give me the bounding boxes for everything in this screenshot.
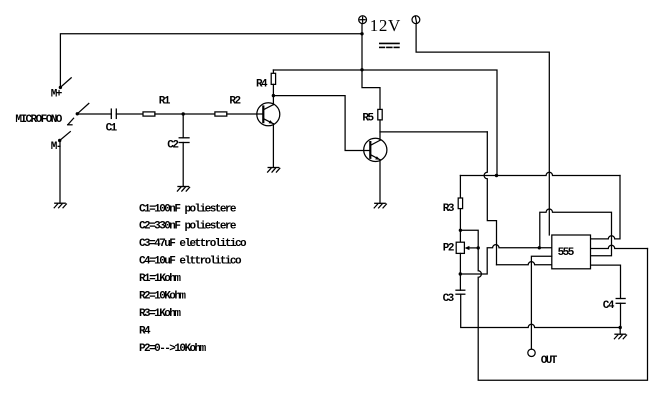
capacitor C2 xyxy=(179,138,189,143)
node junction rail-2 xyxy=(495,174,498,177)
node mic mid contact dot xyxy=(76,112,79,115)
svg-text:MICROFONO: MICROFONO xyxy=(15,114,62,126)
wire R3 bottom to P2 top xyxy=(459,209,461,243)
node junction C4 bottom xyxy=(619,326,622,329)
svg-text:OUT: OUT xyxy=(541,355,558,367)
svg-text:R1=1Kohm: R1=1Kohm xyxy=(139,273,181,285)
microphone M+ contact xyxy=(60,78,71,88)
wire loop pin net over top of 555 with hop over negative wire xyxy=(540,209,612,256)
resistor R5 xyxy=(378,109,382,140)
wire rail-1 from R4 top to 555 area vertical xyxy=(273,70,497,176)
node junction P2 wiper xyxy=(477,246,480,249)
capacitor C3 xyxy=(456,290,465,294)
ground under C2 xyxy=(177,187,189,192)
battery DC symbol xyxy=(380,43,399,47)
wire Q2 collector branch to 555 bottom-left pin (hops rail-2 and crosses) xyxy=(380,131,487,133)
microphone mid contact xyxy=(68,103,89,124)
wire C2 node down xyxy=(182,114,184,138)
ground under M- xyxy=(54,203,66,208)
svg-text:C1=100nF poliestere: C1=100nF poliestere xyxy=(139,203,237,215)
svg-text:C4=10uF elttrolitico: C4=10uF elttrolitico xyxy=(139,256,242,268)
ground under Q1 xyxy=(268,168,280,173)
svg-text:555: 555 xyxy=(558,247,575,259)
transistor Q1 xyxy=(257,103,280,126)
wire bypass R3 bottom to P2 wiper xyxy=(460,230,478,248)
wire P2 bottom to C3 top xyxy=(459,253,461,290)
wire C2 down to ground xyxy=(182,143,184,187)
node M+ contact dot xyxy=(59,86,62,89)
wire node to ground xyxy=(619,328,621,335)
node M- contact dot xyxy=(58,139,61,142)
wire negative terminal to 555 top pin xyxy=(416,24,549,235)
wire vertical with hop over rail-2 xyxy=(484,132,496,265)
node junction R3 bottom xyxy=(459,229,462,232)
resistor R4 xyxy=(271,70,275,105)
svg-text:C3=47uF elettrolitico: C3=47uF elettrolitico xyxy=(139,238,247,250)
wire C3/P2 node to 555 left pin 1 with hop xyxy=(460,245,552,274)
op-amp U1 555 timer box xyxy=(552,235,591,269)
svg-text:P2: P2 xyxy=(443,243,454,255)
wire into 555 pin bottom-left with hop over OUT wire xyxy=(497,262,552,265)
node junction rail-1 xyxy=(360,68,363,71)
wire rail-2 left end down to R3 xyxy=(459,176,461,199)
wire 555 right pin 2 with hop xyxy=(591,245,648,248)
node junction 12V rail top xyxy=(360,32,363,35)
wire 555 right pin 4 to C4 xyxy=(591,265,621,298)
node junction 555 pin net xyxy=(538,246,541,249)
wire Q1 emitter to ground xyxy=(272,124,274,168)
wire C1 to R1 xyxy=(116,113,143,115)
wire R1 to R2 through C2 node xyxy=(155,113,215,115)
resistor R1 xyxy=(143,112,155,116)
ground under Q2 xyxy=(374,203,386,208)
wire C4 bottom to node xyxy=(620,303,622,327)
svg-text:R3=1Kohm: R3=1Kohm xyxy=(139,308,181,320)
wire rail-2 Vcc with hop over negative wire xyxy=(460,172,620,175)
svg-text:C2=330nF poliestere: C2=330nF poliestere xyxy=(139,221,237,233)
wire R2 to Q1 base xyxy=(227,113,263,115)
resistor R3 xyxy=(458,198,462,209)
resistor R2 xyxy=(215,112,227,116)
capacitor C1 xyxy=(111,109,116,118)
wire Q2 emitter to ground xyxy=(379,160,381,204)
node junction C2 top xyxy=(182,112,185,115)
wire 555 right pin 1 up to rail-2 with hop xyxy=(591,176,621,239)
transistor Q2 xyxy=(364,138,387,161)
svg-text:C2: C2 xyxy=(167,140,178,152)
supply terminal +12V xyxy=(359,16,367,24)
svg-text:12V: 12V xyxy=(370,16,401,35)
node junction P2 bottom C3 top xyxy=(459,272,462,275)
svg-text:P2=0-->10Kohm: P2=0-->10Kohm xyxy=(139,343,207,355)
svg-text:R2: R2 xyxy=(229,96,240,108)
wire mic to C1 xyxy=(77,113,111,115)
ground under C4 xyxy=(614,334,626,339)
wire top-left rail from +12V to M+ xyxy=(60,34,362,86)
node junction R4 bottom xyxy=(272,94,275,97)
node OUT terminal circle xyxy=(528,349,535,356)
wire M- down to ground xyxy=(59,141,61,204)
wire Q1 collector node to Q2 base xyxy=(273,96,370,151)
wire +12V vertical down to R5 branch xyxy=(362,24,380,110)
svg-text:M-: M- xyxy=(51,141,61,153)
potentiometer P2 xyxy=(456,242,478,253)
supply terminal negative xyxy=(412,16,420,24)
svg-text:R2=10Kohm: R2=10Kohm xyxy=(139,291,186,303)
capacitor C4 xyxy=(616,299,625,304)
microphone M- contact xyxy=(60,132,71,141)
wire wiper node down to bottom rail and up right side to 555 pin xyxy=(478,248,647,380)
wire 555 OUT pin down to OUT terminal xyxy=(531,256,551,349)
wire C3 bottom across to C4 bottom node with hop over OUT wire xyxy=(461,294,621,327)
